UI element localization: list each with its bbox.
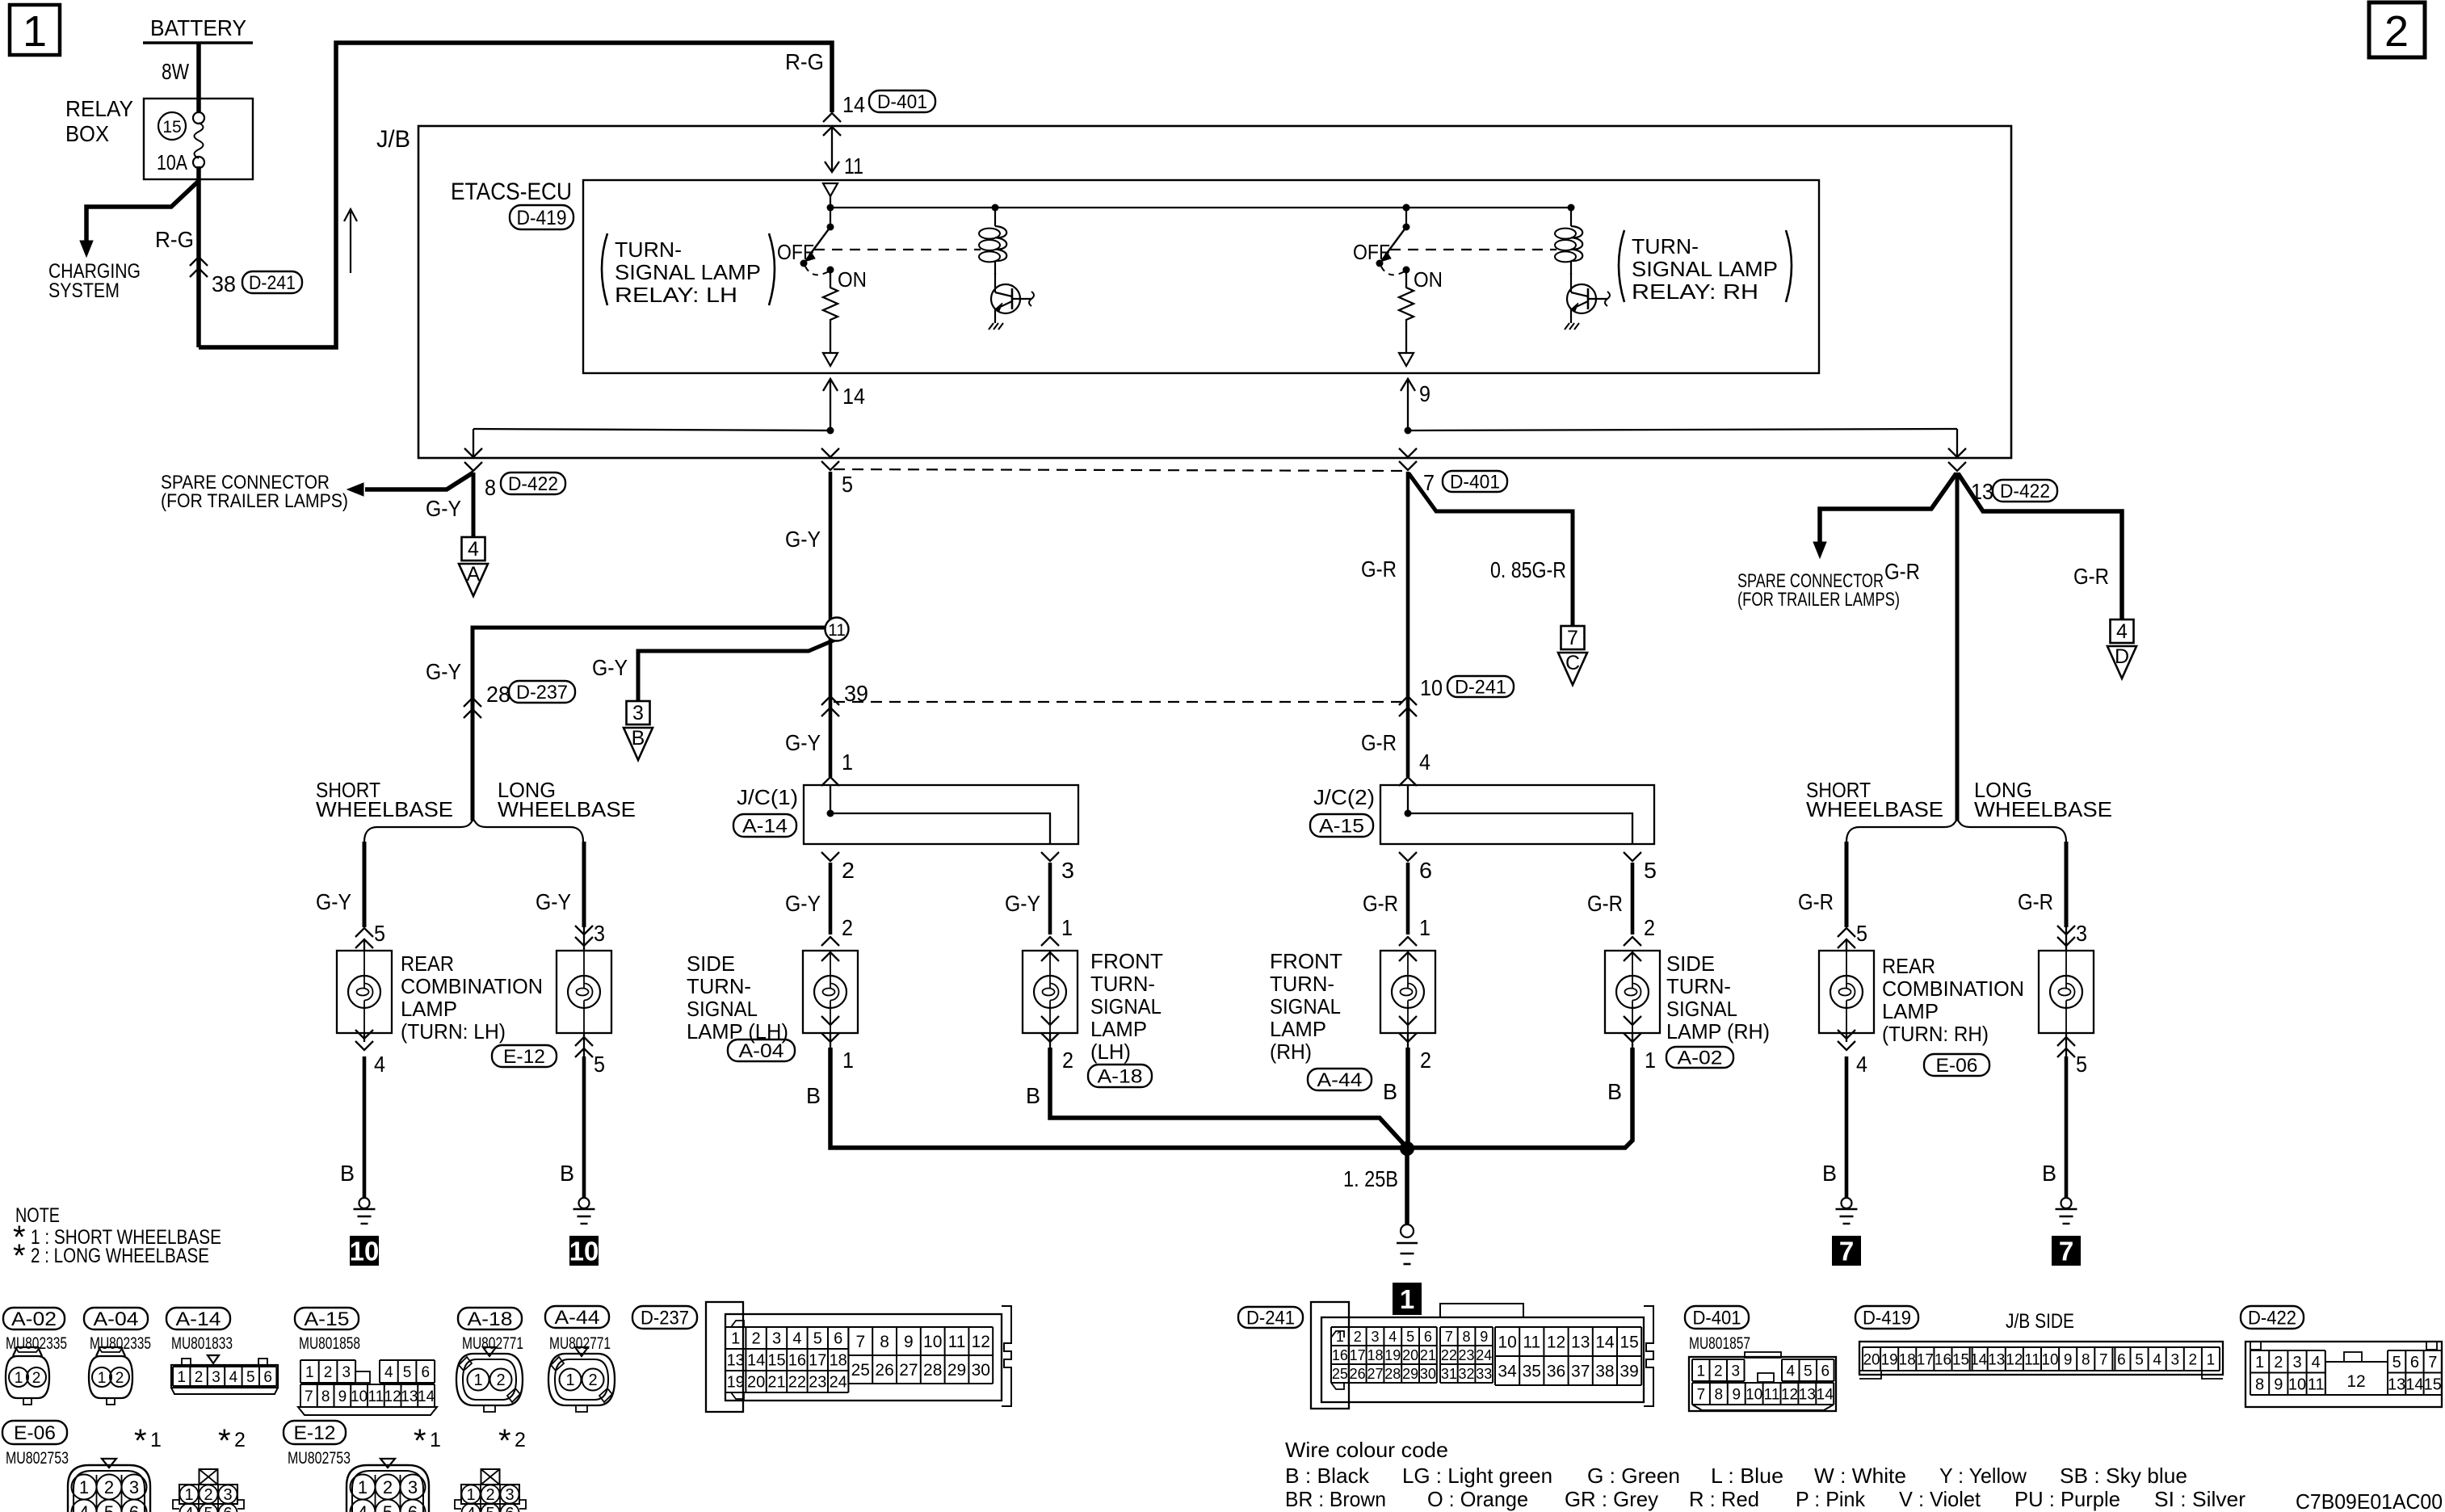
svg-text:6: 6	[263, 1369, 272, 1386]
svg-text:TURN-: TURN-	[615, 237, 682, 262]
svg-text:2: 2	[496, 1371, 505, 1389]
svg-text:B: B	[1383, 1079, 1397, 1104]
svg-text:9: 9	[904, 1333, 914, 1351]
svg-text:W : White: W : White	[1814, 1464, 1906, 1488]
svg-text:4: 4	[374, 1052, 385, 1077]
connector A-44 pinout	[545, 1306, 609, 1328]
svg-text:37: 37	[1571, 1363, 1590, 1381]
J/B exit chevrons x1028	[821, 448, 839, 457]
node dot 14	[827, 427, 834, 435]
svg-text:*: *	[498, 1423, 511, 1459]
connector 10 D-241 crossing	[1399, 696, 1417, 705]
svg-text:MU802771: MU802771	[462, 1334, 523, 1353]
svg-text:8: 8	[2082, 1351, 2090, 1368]
svg-text:SIDE: SIDE	[687, 951, 735, 976]
svg-text:4: 4	[184, 1505, 193, 1512]
brace RH	[1846, 819, 2066, 842]
svg-text:(FOR TRAILER LAMPS): (FOR TRAILER LAMPS)	[1737, 589, 1900, 611]
svg-text:E-06: E-06	[14, 1422, 56, 1444]
svg-text:9: 9	[1480, 1329, 1488, 1345]
svg-text:A-14: A-14	[742, 815, 788, 837]
svg-text:11: 11	[1523, 1333, 1540, 1352]
svg-text:7: 7	[2059, 1236, 2073, 1266]
svg-text:SIGNAL LAMP: SIGNAL LAMP	[615, 260, 761, 284]
svg-text:6: 6	[1821, 1363, 1830, 1380]
svg-text:7: 7	[2428, 1354, 2437, 1371]
svg-text:PU : Purple: PU : Purple	[2014, 1487, 2120, 1511]
svg-text:6: 6	[421, 1364, 430, 1381]
svg-text:2: 2	[2384, 7, 2409, 56]
svg-text:12: 12	[2346, 1372, 2365, 1391]
svg-text:SIGNAL LAMP: SIGNAL LAMP	[1632, 257, 1778, 281]
brace LH	[364, 819, 583, 842]
svg-text:38: 38	[212, 271, 236, 296]
relay LH transistor	[991, 284, 1020, 313]
svg-text:(LH): (LH)	[1090, 1039, 1131, 1064]
svg-text:TURN-: TURN-	[1632, 234, 1699, 258]
svg-text:(TURN: RH): (TURN: RH)	[1882, 1022, 1989, 1046]
svg-text:14: 14	[842, 384, 865, 409]
svg-text:LAMP (RH): LAMP (RH)	[1666, 1019, 1770, 1044]
svg-text:REAR: REAR	[401, 951, 454, 976]
svg-text:G-Y: G-Y	[536, 889, 571, 914]
svg-text:12: 12	[384, 1388, 401, 1405]
svg-text:24: 24	[1476, 1347, 1492, 1363]
svg-text:A-04: A-04	[94, 1308, 139, 1330]
wire to charging system	[86, 181, 199, 242]
svg-text:10: 10	[569, 1236, 599, 1266]
svg-text:REAR: REAR	[1882, 954, 1935, 978]
svg-text:10: 10	[2288, 1375, 2306, 1393]
bus wire right to D-422 branch	[1408, 429, 1957, 430]
J/B exit chevrons x1743	[1399, 448, 1417, 457]
wire G-R main rear down	[1956, 472, 1960, 821]
svg-text:G-Y: G-Y	[592, 655, 628, 680]
svg-text:WHEELBASE: WHEELBASE	[316, 797, 453, 821]
svg-text:27: 27	[899, 1361, 918, 1380]
svg-text:*: *	[13, 1238, 26, 1274]
svg-text:BOX: BOX	[65, 121, 109, 146]
fuse 15 10A	[158, 112, 186, 140]
svg-text:2: 2	[32, 1370, 41, 1387]
junction connector J/C(1)	[804, 785, 1078, 844]
svg-text:P : Pink: P : Pink	[1796, 1487, 1866, 1511]
svg-text:15: 15	[1952, 1351, 1969, 1368]
svg-text:32: 32	[1459, 1366, 1475, 1382]
svg-text:ON: ON	[1414, 267, 1443, 292]
svg-text:L : Blue: L : Blue	[1711, 1464, 1783, 1488]
svg-text:A-18: A-18	[468, 1308, 513, 1330]
svg-text:25: 25	[851, 1361, 870, 1380]
svg-text:1: 1	[473, 1371, 482, 1389]
branch to 3-B marker	[638, 637, 841, 701]
svg-text:4: 4	[792, 1330, 801, 1348]
svg-text:LAMP: LAMP	[401, 997, 457, 1021]
svg-text:MU802753: MU802753	[6, 1449, 69, 1468]
svg-text:COMBINATION: COMBINATION	[401, 974, 543, 998]
svg-text:14: 14	[2405, 1375, 2423, 1393]
J/B exit chevrons x2423	[1948, 448, 1966, 457]
dashed connector D-241 line	[834, 701, 1405, 703]
rear combination lamp RH long wheelbase	[2065, 842, 2069, 927]
svg-text:G-R: G-R	[1884, 559, 1920, 584]
svg-text:1: 1	[1336, 1329, 1344, 1345]
svg-text:(RH): (RH)	[1270, 1039, 1312, 1064]
svg-text:15: 15	[2424, 1375, 2442, 1393]
junction circle 11	[829, 618, 833, 777]
bus wire left to D-422 branch	[473, 429, 830, 430]
wire B side lamp RH to junction	[1412, 1048, 1632, 1148]
svg-text:6: 6	[223, 1505, 232, 1512]
svg-text:D-401: D-401	[1450, 471, 1500, 493]
svg-text:D-422: D-422	[2248, 1307, 2296, 1329]
marker 7 C	[1561, 626, 1585, 649]
svg-text:33: 33	[1476, 1366, 1492, 1382]
svg-text:11: 11	[1764, 1386, 1780, 1403]
svg-text:ETACS-ECU: ETACS-ECU	[451, 178, 572, 205]
svg-text:D-422: D-422	[2000, 481, 2050, 502]
svg-text:D-241: D-241	[1455, 676, 1506, 698]
svg-text:31: 31	[1441, 1366, 1457, 1382]
svg-text:9: 9	[1419, 381, 1430, 406]
wire J/C(1) pin3 to front lamp	[1041, 852, 1059, 861]
svg-text:2: 2	[842, 858, 855, 883]
svg-text:20: 20	[747, 1374, 765, 1392]
svg-text:B: B	[1822, 1161, 1837, 1186]
svg-text:9: 9	[1732, 1386, 1741, 1403]
svg-text:A-04: A-04	[739, 1040, 784, 1062]
svg-text:G-R: G-R	[1361, 730, 1397, 755]
svg-text:Wire colour code: Wire colour code	[1285, 1438, 1448, 1462]
ground symbol central	[1401, 1224, 1414, 1237]
svg-text:D-422: D-422	[508, 473, 558, 495]
svg-text:36: 36	[1547, 1363, 1565, 1381]
svg-text:D: D	[2115, 645, 2129, 668]
svg-text:16: 16	[1332, 1347, 1348, 1363]
svg-text:3: 3	[223, 1486, 232, 1504]
svg-text:2: 2	[1714, 1363, 1723, 1380]
svg-text:1. 25B: 1. 25B	[1343, 1166, 1398, 1191]
svg-text:10: 10	[350, 1236, 380, 1266]
J/B exit chevrons x586	[464, 448, 482, 457]
svg-text:1: 1	[1061, 915, 1073, 940]
svg-text:10: 10	[923, 1333, 942, 1351]
svg-text:A-44: A-44	[555, 1307, 600, 1329]
flow arrow up	[350, 212, 351, 273]
connector 39 D-241 crossing	[821, 696, 839, 705]
svg-text:G-Y: G-Y	[426, 496, 461, 521]
svg-text:*: *	[218, 1423, 231, 1459]
connector D-241 pinout	[1238, 1307, 1303, 1328]
svg-text:3: 3	[1371, 1329, 1379, 1345]
svg-text:2 : LONG WHEELBASE: 2 : LONG WHEELBASE	[31, 1245, 209, 1267]
svg-text:7: 7	[1423, 470, 1435, 495]
relay LH dashed link to coil	[814, 249, 981, 250]
connector 28 D-237 crossing	[464, 698, 481, 707]
svg-text:MU802753: MU802753	[288, 1449, 351, 1468]
svg-text:E-12: E-12	[503, 1046, 545, 1068]
svg-text:28: 28	[486, 682, 510, 707]
svg-text:SB : Sky blue: SB : Sky blue	[2060, 1464, 2187, 1488]
svg-text:G-R: G-R	[1587, 891, 1623, 916]
svg-text:6: 6	[129, 1502, 139, 1512]
svg-text:2: 2	[2189, 1351, 2198, 1368]
svg-text:B: B	[340, 1161, 355, 1186]
svg-text:RELAY: RELAY	[65, 96, 133, 121]
svg-text:15: 15	[1619, 1333, 1638, 1352]
branch to 0.85G-R drop	[1409, 473, 1573, 626]
relay RH transistor	[1567, 284, 1596, 313]
wire fuse to junction	[196, 166, 201, 347]
svg-text:A-14: A-14	[176, 1308, 221, 1330]
svg-text:8: 8	[1715, 1386, 1724, 1403]
svg-text:OFF: OFF	[1353, 240, 1390, 264]
svg-text:B: B	[632, 727, 645, 750]
marker 3 B	[627, 701, 650, 724]
svg-text:B: B	[1026, 1083, 1040, 1108]
svg-text:6: 6	[1424, 1329, 1432, 1345]
svg-text:SIGNAL: SIGNAL	[1270, 994, 1341, 1018]
svg-text:G : Green: G : Green	[1587, 1464, 1680, 1488]
svg-text:5: 5	[813, 1330, 822, 1348]
svg-text:21: 21	[1420, 1347, 1436, 1363]
relay LH pin triangle top	[823, 183, 838, 196]
svg-text:MU801857: MU801857	[1689, 1334, 1750, 1353]
svg-text:7: 7	[1445, 1329, 1453, 1345]
svg-text:SI : Silver: SI : Silver	[2154, 1487, 2245, 1511]
relay LH switch	[827, 204, 834, 212]
svg-text:29: 29	[1402, 1366, 1418, 1382]
connector A-15 pinout	[295, 1308, 359, 1329]
connector 38 D-241 crossing	[190, 257, 208, 266]
wire pin 11 into ETACS	[831, 127, 833, 170]
svg-text:1: 1	[1400, 1284, 1414, 1314]
svg-text:7: 7	[855, 1333, 865, 1351]
svg-text:15: 15	[767, 1352, 785, 1370]
svg-text:2: 2	[1644, 915, 1655, 940]
wire B side lamp LH to ground bus	[830, 1048, 1402, 1148]
junction connector J/C(2)	[1380, 785, 1654, 844]
svg-text:WHEELBASE: WHEELBASE	[1974, 797, 2112, 821]
svg-text:J/C(1): J/C(1)	[737, 785, 798, 809]
svg-text:4: 4	[79, 1502, 89, 1512]
svg-text:1: 1	[15, 1370, 23, 1387]
svg-text:11: 11	[844, 153, 863, 178]
svg-text:3: 3	[594, 921, 605, 946]
svg-text:8: 8	[1463, 1329, 1471, 1345]
svg-text:3: 3	[212, 1369, 221, 1386]
svg-text:17: 17	[1917, 1351, 1934, 1368]
svg-text:22: 22	[1441, 1347, 1457, 1363]
svg-text:1: 1	[2207, 1351, 2216, 1368]
relay LH pin triangle bottom	[823, 353, 838, 366]
svg-text:WHEELBASE: WHEELBASE	[1806, 797, 1943, 821]
ETACS-ECU box	[583, 180, 1819, 373]
svg-text:5: 5	[104, 1502, 114, 1512]
svg-text:3: 3	[129, 1477, 139, 1497]
svg-text:14: 14	[1595, 1333, 1615, 1352]
svg-text:12: 12	[1547, 1333, 1565, 1352]
svg-text:19: 19	[727, 1374, 745, 1392]
svg-text:17: 17	[1350, 1347, 1366, 1363]
svg-text:1: 1	[466, 1486, 475, 1504]
svg-text:2: 2	[383, 1477, 393, 1497]
svg-text:3: 3	[2076, 921, 2087, 946]
svg-text:10: 10	[2041, 1351, 2058, 1368]
svg-text:D-237: D-237	[516, 682, 568, 703]
svg-text:TURN-: TURN-	[1270, 972, 1334, 996]
svg-text:10: 10	[1420, 675, 1443, 700]
svg-text:1: 1	[79, 1477, 89, 1497]
svg-text:4: 4	[1388, 1329, 1397, 1345]
svg-text:MU801858: MU801858	[299, 1334, 360, 1353]
svg-text:6: 6	[834, 1330, 842, 1348]
svg-text:4: 4	[2153, 1351, 2161, 1368]
svg-text:D-241: D-241	[1246, 1307, 1295, 1329]
svg-text:7: 7	[2099, 1351, 2108, 1368]
svg-text:35: 35	[1523, 1363, 1541, 1381]
svg-text:R : Red: R : Red	[1689, 1487, 1759, 1511]
connector A-02 pinout	[3, 1308, 65, 1329]
svg-text:4: 4	[1856, 1052, 1867, 1077]
svg-text:G-Y: G-Y	[785, 527, 821, 552]
svg-text:O : Orange: O : Orange	[1427, 1487, 1528, 1511]
svg-text:3: 3	[632, 702, 644, 724]
svg-text:2: 2	[2274, 1354, 2283, 1371]
svg-text:1: 1	[731, 1330, 740, 1348]
svg-text:3: 3	[2170, 1351, 2179, 1368]
svg-text:1: 1	[184, 1486, 193, 1504]
svg-text:22: 22	[788, 1374, 806, 1392]
svg-text:1: 1	[1419, 915, 1430, 940]
svg-text:2: 2	[842, 915, 853, 940]
relay LH coil	[994, 208, 996, 226]
svg-text:1: 1	[358, 1477, 368, 1497]
marker 4 D	[2111, 619, 2134, 643]
svg-text:2: 2	[104, 1477, 114, 1497]
svg-text:16: 16	[788, 1352, 806, 1370]
svg-text:4: 4	[1786, 1363, 1795, 1380]
svg-text:17: 17	[809, 1352, 826, 1370]
svg-text:1: 1	[150, 1429, 162, 1451]
svg-text:C: C	[1565, 652, 1580, 674]
svg-text:2: 2	[234, 1429, 246, 1451]
connector D-419 label	[510, 205, 573, 229]
svg-text:1: 1	[842, 750, 853, 775]
svg-text:1: 1	[1645, 1048, 1656, 1073]
svg-text:7: 7	[1567, 627, 1578, 649]
svg-text:G-R: G-R	[1363, 891, 1398, 916]
svg-text:A-15: A-15	[305, 1308, 350, 1330]
svg-text:RELAY: LH: RELAY: LH	[615, 283, 737, 307]
svg-text:5: 5	[246, 1369, 255, 1386]
wire battery to relay box	[196, 43, 201, 113]
svg-text:TURN-: TURN-	[1666, 974, 1731, 998]
svg-text:BR : Brown: BR : Brown	[1285, 1487, 1386, 1511]
svg-text:5: 5	[1406, 1329, 1414, 1345]
svg-text:2: 2	[116, 1370, 124, 1387]
svg-text:1: 1	[1696, 1363, 1705, 1380]
svg-text:4: 4	[468, 538, 479, 561]
svg-text:(FOR TRAILER LAMPS): (FOR TRAILER LAMPS)	[161, 490, 348, 512]
svg-text:26: 26	[875, 1361, 893, 1380]
relay RH resistor	[1399, 270, 1414, 352]
svg-text:A-18: A-18	[1098, 1065, 1143, 1087]
svg-text:2: 2	[752, 1330, 761, 1348]
svg-text:9: 9	[2274, 1375, 2283, 1393]
svg-text:20: 20	[1863, 1351, 1880, 1368]
svg-text:2: 2	[1420, 1048, 1431, 1073]
svg-text:5: 5	[2076, 1052, 2087, 1077]
svg-text:D-241: D-241	[249, 272, 296, 294]
svg-text:COMBINATION: COMBINATION	[1882, 976, 2024, 1001]
wire battery feed to J/B top	[199, 43, 832, 347]
svg-text:7: 7	[1697, 1386, 1706, 1403]
svg-text:30: 30	[1420, 1366, 1436, 1382]
svg-text:5: 5	[204, 1505, 212, 1512]
rear combination lamp LH short wheelbase E-12	[363, 842, 367, 927]
connector E-06 pinout	[2, 1421, 67, 1444]
svg-text:20: 20	[1402, 1347, 1418, 1363]
svg-text:G-Y: G-Y	[785, 891, 821, 916]
svg-text:11: 11	[368, 1388, 384, 1405]
svg-text:10A: 10A	[157, 150, 188, 174]
svg-text:8W: 8W	[162, 59, 189, 84]
rear combination lamp LH long wheelbase	[582, 842, 586, 927]
svg-text:5: 5	[383, 1502, 393, 1512]
svg-text:6: 6	[505, 1505, 514, 1512]
svg-text:13: 13	[1571, 1333, 1590, 1352]
svg-text:2: 2	[324, 1364, 333, 1381]
svg-text:5: 5	[1804, 1363, 1813, 1380]
svg-text:SIDE: SIDE	[1666, 951, 1715, 976]
svg-text:SYSTEM: SYSTEM	[48, 279, 120, 302]
relay LH resistor	[823, 270, 838, 352]
wire G-R main RH down	[1406, 472, 1410, 777]
connector D-422 pinout	[2241, 1306, 2304, 1329]
svg-text:1: 1	[98, 1370, 107, 1387]
ETACS internal supply line	[830, 207, 1571, 208]
svg-text:19: 19	[1384, 1347, 1401, 1363]
svg-text:8: 8	[2255, 1375, 2264, 1393]
svg-text:12: 12	[972, 1333, 990, 1351]
svg-text:5: 5	[594, 1052, 605, 1077]
svg-text:G-R: G-R	[2018, 889, 2053, 914]
svg-text:MU801833: MU801833	[171, 1334, 233, 1353]
svg-text:27: 27	[1367, 1366, 1383, 1382]
svg-text:5: 5	[2392, 1354, 2401, 1371]
wire ETACS pin 14 to bus	[830, 380, 831, 430]
wire down to 4-A	[472, 472, 476, 537]
svg-text:1: 1	[2255, 1354, 2264, 1371]
connector D-419 pinout	[1855, 1306, 1918, 1329]
svg-text:10: 10	[1498, 1333, 1516, 1352]
svg-text:4: 4	[2312, 1354, 2321, 1371]
svg-text:(TURN: LH): (TURN: LH)	[401, 1019, 506, 1044]
svg-text:4: 4	[384, 1364, 393, 1381]
svg-text:24: 24	[830, 1374, 847, 1392]
svg-text:2: 2	[1354, 1329, 1362, 1345]
svg-text:LG : Light green: LG : Light green	[1402, 1464, 1552, 1488]
svg-text:J/C(2): J/C(2)	[1313, 785, 1375, 809]
wire G-Y main LH down	[829, 472, 833, 618]
svg-text:V : Violet: V : Violet	[1899, 1487, 1981, 1511]
svg-text:3: 3	[1061, 858, 1074, 883]
svg-text:14: 14	[842, 92, 865, 117]
svg-text:28: 28	[923, 1361, 942, 1380]
svg-text:D-401: D-401	[1693, 1307, 1741, 1329]
svg-text:J/B SIDE: J/B SIDE	[2006, 1310, 2074, 1333]
